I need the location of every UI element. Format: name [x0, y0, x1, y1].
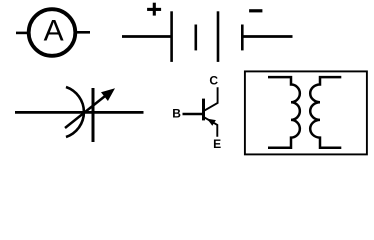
svg-text:C: C: [209, 74, 218, 88]
svg-text:B: B: [172, 107, 181, 121]
svg-text:E: E: [213, 137, 221, 151]
svg-text:A: A: [44, 14, 64, 47]
